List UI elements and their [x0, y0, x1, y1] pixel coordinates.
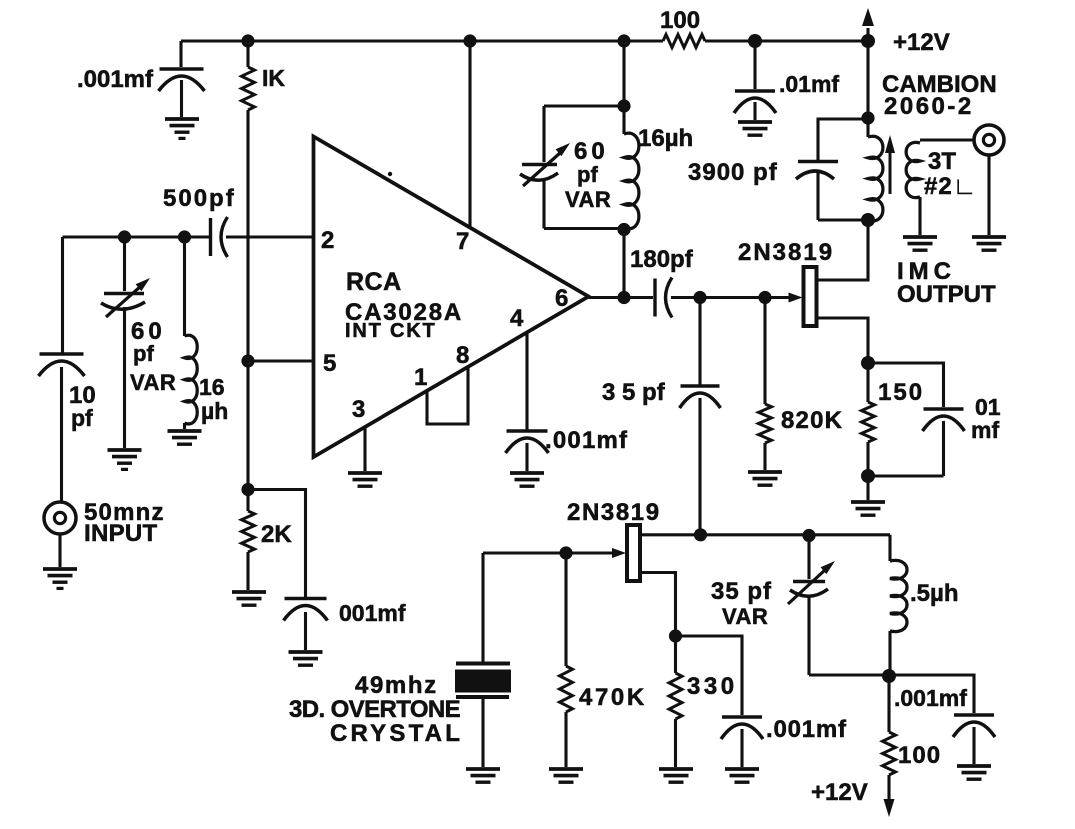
svg-text:2N3819: 2N3819 — [738, 239, 834, 266]
svg-text:5: 5 — [323, 350, 336, 377]
svg-text:IK: IK — [262, 65, 285, 91]
svg-text:CRYSTAL: CRYSTAL — [330, 720, 463, 747]
svg-text:mf: mf — [971, 417, 999, 443]
svg-text:8: 8 — [456, 342, 469, 369]
svg-text:100: 100 — [660, 7, 700, 34]
svg-text:.001mf: .001mf — [545, 427, 628, 454]
svg-text:35 pf: 35 pf — [711, 578, 772, 605]
svg-text:VAR: VAR — [565, 187, 611, 212]
svg-text:VAR: VAR — [130, 370, 176, 395]
svg-text:001mf: 001mf — [339, 600, 406, 626]
svg-text:16µh: 16µh — [638, 125, 693, 152]
svg-text:150: 150 — [878, 379, 924, 406]
svg-text:OUTPUT: OUTPUT — [897, 281, 996, 308]
svg-text:3D. OVERTONE: 3D. OVERTONE — [289, 696, 461, 723]
svg-text:1: 1 — [414, 364, 427, 391]
svg-text:3900 pf: 3900 pf — [688, 159, 778, 186]
svg-text:+12V: +12V — [811, 779, 868, 806]
svg-text:pf: pf — [71, 405, 93, 431]
svg-text:820K: 820K — [781, 407, 843, 434]
svg-text:500pf: 500pf — [163, 185, 236, 212]
svg-text:60: 60 — [574, 138, 609, 165]
svg-text:2N3819: 2N3819 — [567, 499, 661, 526]
svg-text:6: 6 — [555, 285, 568, 312]
svg-text:2: 2 — [321, 227, 334, 254]
svg-text:+12V: +12V — [893, 29, 950, 56]
svg-text:.001mf: .001mf — [894, 685, 967, 711]
svg-text:.5µh: .5µh — [910, 580, 959, 607]
svg-text:49mhz: 49mhz — [355, 672, 438, 699]
svg-text:2K: 2K — [261, 521, 292, 548]
svg-text:#2∟: #2∟ — [924, 173, 977, 200]
svg-text:100: 100 — [898, 742, 941, 769]
svg-text:INT CKT: INT CKT — [345, 320, 436, 342]
svg-text:2060-2: 2060-2 — [884, 93, 974, 120]
svg-text:16: 16 — [199, 374, 225, 400]
svg-text:µh: µh — [201, 398, 228, 424]
svg-text:7: 7 — [456, 228, 469, 255]
svg-text:.001mf: .001mf — [77, 66, 154, 93]
svg-text:VAR: VAR — [722, 604, 768, 629]
svg-text:RCA: RCA — [346, 268, 402, 296]
svg-text:pf: pf — [133, 341, 154, 366]
svg-text:4: 4 — [510, 305, 524, 332]
svg-text:pf: pf — [577, 162, 598, 187]
svg-text:.001mf: .001mf — [766, 716, 847, 743]
svg-text:INPUT: INPUT — [84, 520, 158, 547]
svg-text:3T: 3T — [928, 148, 956, 175]
svg-text:3: 3 — [352, 396, 365, 423]
svg-text:330: 330 — [687, 673, 738, 700]
svg-text:3 5 pf: 3 5 pf — [602, 379, 666, 406]
svg-text:180pf: 180pf — [630, 246, 694, 273]
svg-text:470K: 470K — [579, 684, 647, 711]
svg-text:.01mf: .01mf — [779, 71, 839, 97]
